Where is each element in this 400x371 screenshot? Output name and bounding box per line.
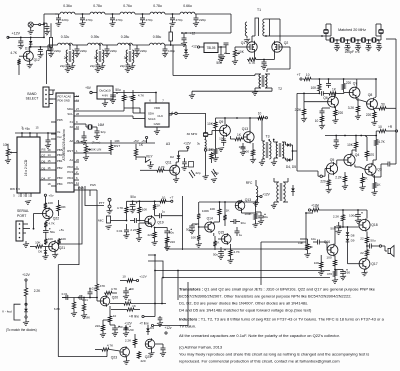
svg-text:GND: GND: [154, 122, 162, 126]
svg-text:47K: 47K: [100, 284, 106, 288]
caps on T line: [158, 317, 163, 319]
transistor Q11: [170, 165, 180, 175]
svg-text:470p: 470p: [176, 18, 183, 22]
resistor 10K Q6: [318, 83, 321, 92]
svg-text:Q8: Q8: [368, 93, 373, 97]
dots T3: [268, 139, 270, 141]
wire q16 collector: [334, 227, 336, 245]
svg-text:0.01: 0.01: [62, 292, 68, 296]
svg-text:220: 220: [95, 324, 100, 328]
svg-text:+5v: +5v: [59, 228, 64, 232]
svg-text:+50: +50: [117, 325, 122, 329]
svg-text:100p: 100p: [239, 145, 246, 149]
svg-text:1K: 1K: [132, 304, 136, 308]
ATMEGA pin PD5 left: [51, 121, 56, 123]
svg-text:+T: +T: [170, 196, 174, 200]
transformer mixer lower: [277, 182, 279, 202]
svg-text:50u: 50u: [115, 88, 121, 92]
svg-text:10K: 10K: [314, 261, 320, 265]
regulator 78L05: [204, 43, 218, 53]
inductor 0.66u row1: [180, 12, 195, 14]
svg-text:D4 and D5 are 1N4148s matched: D4 and D5 are 1N4148s matched for equal …: [179, 308, 312, 313]
svg-text:220: 220: [140, 359, 145, 363]
svg-text:D6: D6: [42, 160, 46, 164]
IC ATMEGA328: [56, 93, 74, 192]
svg-text:10K: 10K: [60, 205, 66, 209]
antenna connector: [28, 22, 33, 27]
svg-text:D4: D4: [150, 326, 154, 330]
svg-text:50u: 50u: [370, 239, 375, 243]
svg-text:100: 100: [244, 150, 249, 154]
svg-text:PB3: PB3: [57, 176, 63, 180]
svg-text:100pF x 5: 100pF x 5: [344, 50, 359, 54]
svg-text:A1: A1: [69, 158, 73, 162]
svg-text:4.7K: 4.7K: [117, 206, 124, 210]
crystal 16M: [86, 126, 88, 128]
svg-text:0.66u: 0.66u: [183, 4, 192, 8]
wire long bus 3: [148, 261, 330, 278]
svg-text:0.32u: 0.32u: [61, 35, 70, 39]
svg-text:10K: 10K: [209, 148, 214, 152]
svg-text:30 MHz: 30 MHz: [187, 132, 198, 136]
rail mic amp: [127, 200, 157, 202]
svg-text:+50: +50: [128, 328, 133, 332]
svg-text:4.7K: 4.7K: [378, 140, 385, 144]
svg-text:11: 11: [76, 181, 79, 185]
ATMEGA pin PB2 left: [51, 169, 56, 171]
svg-text:+5v: +5v: [48, 194, 54, 198]
transistor Q13 mixer: [243, 132, 254, 143]
capacitor 220p row1: [58, 14, 60, 18]
svg-text:(Tune): (Tune): [92, 141, 101, 145]
wire vertical bus C down: [162, 277, 164, 279]
LCD 16x2 block: [17, 137, 40, 193]
LCD pins: [40, 151, 51, 153]
svg-text:D7: D7: [42, 154, 46, 158]
wire vertical PG5 to PA: [90, 189, 97, 191]
wire vertical bus right: [305, 213, 307, 249]
transistor Q9: [220, 125, 231, 136]
capacitor 470p row1: [172, 13, 174, 15]
svg-text:12: 12: [76, 94, 80, 98]
cap at sources: [263, 60, 265, 63]
svg-text:10K: 10K: [48, 237, 53, 241]
svg-text:100p: 100p: [168, 49, 175, 53]
svg-text:T3: T3: [266, 135, 270, 139]
svg-text:+12V: +12V: [124, 322, 132, 326]
svg-text:SDA: SDA: [148, 112, 154, 116]
svg-text:3u: 3u: [124, 56, 128, 60]
svg-text:Q2: Q2: [284, 41, 289, 45]
wire vertical at text edge: [177, 271, 179, 301]
transformer 3u row2 trap: [99, 44, 101, 46]
svg-text:0.78u: 0.78u: [93, 4, 102, 8]
svg-text:Matched 20 MHz: Matched 20 MHz: [338, 28, 366, 32]
FET Q2: [272, 42, 282, 52]
svg-text:10: 10: [306, 73, 310, 77]
cap 50u at 78L05: [218, 54, 224, 56]
svg-text:RST: RST: [114, 144, 120, 148]
svg-text:10K: 10K: [347, 143, 354, 147]
transistor Q15: [221, 234, 231, 244]
resistor 10K Q9 lower: [214, 148, 217, 156]
resistor 1K Q3 b: [373, 182, 376, 190]
svg-text:PD2: PD2: [67, 165, 73, 169]
ATMEGA pin PD2: [74, 168, 79, 170]
svg-text:Q5: Q5: [330, 158, 335, 162]
svg-text:D9: D9: [351, 239, 355, 243]
inductor 0.28u row2: [118, 43, 133, 45]
transistor Q3: [365, 164, 376, 175]
svg-text:10: 10: [378, 125, 382, 129]
svg-text:SDA: SDA: [67, 107, 73, 111]
diodes D4 D5: [287, 143, 290, 147]
T1 winding middle hairpin: [255, 18, 259, 36]
svg-text:+12V: +12V: [22, 273, 31, 277]
svg-text:RFC: RFC: [246, 181, 253, 185]
wire big loop left: [57, 265, 59, 357]
cap 100p filter: [347, 39, 349, 41]
wire 0.01 row: [62, 297, 97, 299]
svg-text:D4, D5: D4, D5: [286, 165, 296, 169]
svg-text:2.2K: 2.2K: [335, 176, 342, 180]
wire rail to Q8 collector: [375, 79, 377, 97]
wire atmega PTT: [85, 186, 104, 206]
crystal output elevated: [380, 28, 382, 30]
svg-text:Q23: Q23: [111, 356, 118, 360]
ATMEGA pin SDA: [74, 110, 79, 112]
speaker jack: [382, 245, 385, 247]
svg-text:470: 470: [369, 153, 375, 157]
ground duca: [104, 99, 106, 103]
resistor 220 Q7: [342, 83, 345, 91]
resistor 1K Q13 base: [234, 137, 243, 140]
source resistor 4.7K: [247, 58, 257, 61]
svg-text:D4: D4: [42, 177, 46, 181]
ATMEGA pin A1: [74, 161, 79, 163]
cap Q6 emitter: [320, 110, 325, 112]
svg-text:220p: 220p: [199, 18, 206, 22]
svg-text:22p: 22p: [60, 64, 65, 68]
svg-text:2u: 2u: [64, 56, 68, 60]
svg-text:SERIAL: SERIAL: [17, 209, 29, 213]
resistor 10: [320, 115, 323, 123]
svg-text:+12V: +12V: [262, 193, 270, 197]
transistor Q23: [120, 347, 130, 357]
inductor 0.32u row2: [58, 43, 73, 45]
svg-text:10u: 10u: [311, 237, 316, 241]
svg-text:+R line: +R line: [129, 315, 139, 319]
crystal X5: [370, 39, 372, 41]
cap 32p xtal: [95, 130, 100, 132]
wire relay down to band area: [50, 48, 52, 51]
svg-text:CLK: CLK: [157, 114, 163, 118]
inductor 0.76u row1: [120, 12, 135, 14]
crystal X1: [328, 39, 330, 41]
svg-text:DuCa10: DuCa10: [99, 89, 110, 93]
transistor Q20: [100, 296, 110, 306]
jack MIC: [107, 216, 111, 223]
transistor Q12 PNP: [23, 51, 33, 61]
T1 bottom leads: [251, 36, 253, 42]
svg-text:2.2K: 2.2K: [333, 215, 340, 219]
svg-text:4.7K: 4.7K: [48, 222, 55, 226]
wire row2 output: [173, 44, 186, 46]
svg-text:D1: D1: [25, 47, 29, 51]
resistor 220 Q8: [373, 111, 376, 119]
transistor Q4: [344, 154, 355, 165]
resistor 220 Q5: [327, 179, 330, 187]
ground serial: [25, 241, 27, 244]
wires IF amp2: [336, 160, 338, 165]
resistor 4.7K Q3: [375, 139, 378, 147]
svg-text:22p: 22p: [120, 64, 125, 68]
svg-text:reproduced. For commercial pro: reproduced. For commercial production of…: [179, 359, 340, 364]
svg-text:10K: 10K: [207, 122, 214, 126]
transistor Q14: [205, 222, 215, 232]
resistor 470 Q4: [365, 150, 368, 158]
crystal X4: [360, 39, 362, 41]
svg-text:Q20: Q20: [112, 296, 119, 300]
svg-text:Q22: Q22: [53, 217, 60, 221]
svg-text:Q18: Q18: [371, 223, 378, 227]
svg-text:470p: 470p: [116, 18, 123, 22]
transformer 3u row2 trap: [129, 44, 131, 46]
rail modulator: [199, 201, 258, 203]
trimmer near q11: [189, 162, 194, 168]
term Q5 base: [320, 175, 322, 177]
crystal input elevated: [325, 28, 327, 30]
resistor 10K Q9: [214, 121, 217, 129]
svg-text:Vcc: Vcc: [57, 135, 62, 139]
bypass cap on 12V: [20, 37, 22, 41]
svg-text:Inductors : T1, T2, T3 are 8 t: Inductors : T1, T2, T3 are 8 trifilar tu…: [179, 317, 385, 322]
svg-text:Q19: Q19: [157, 221, 164, 225]
svg-text:220p: 220p: [62, 18, 69, 22]
svg-text:470p: 470p: [146, 18, 153, 22]
rail IF amp2: [325, 135, 376, 137]
svg-text:SELECT: SELECT: [26, 97, 39, 101]
wire filter out down: [386, 38, 396, 40]
svg-text:10: 10: [258, 112, 262, 116]
transformer T3 secondary: [276, 142, 278, 158]
svg-text:X2: X2: [69, 125, 73, 129]
svg-text:VDD: VDD: [154, 106, 161, 110]
cap base line: [321, 91, 323, 96]
svg-text:T1: T1: [257, 8, 261, 12]
wire corner mod: [261, 241, 306, 243]
svg-text:RST: RST: [67, 149, 73, 153]
svg-text:Q12: Q12: [34, 58, 40, 62]
IC Si570: [145, 103, 169, 127]
wire between gates: [235, 46, 247, 48]
svg-text:11: 11: [76, 99, 79, 103]
ATMEGA pin PC3: [74, 173, 79, 175]
svg-text:+T line: +T line: [139, 322, 149, 326]
svg-text:2.2K: 2.2K: [295, 108, 302, 112]
ATMEGA pin Vcc left: [51, 138, 56, 140]
wire A2 to key: [79, 142, 155, 144]
connector BAND SELECT: [43, 87, 49, 107]
cap q24: [161, 347, 166, 349]
svg-text:PORT: PORT: [17, 214, 26, 218]
svg-text:22: 22: [360, 251, 364, 255]
svg-text:16M: 16M: [98, 123, 105, 127]
svg-text:+12V: +12V: [12, 32, 21, 36]
svg-text:PC3: PC3: [67, 170, 73, 174]
svg-text:RW 6 6: RW 6 6: [10, 187, 20, 191]
svg-text:0.39u: 0.39u: [91, 35, 100, 39]
svg-text:SCLK: SCLK: [148, 117, 156, 121]
wire Q6 collector: [334, 93, 336, 96]
svg-text:TV balun.: TV balun.: [179, 324, 196, 329]
svg-text:1u: 1u: [239, 233, 243, 237]
svg-text:A2: A2: [69, 139, 73, 143]
ATMEGA pin RST: [74, 152, 79, 154]
svg-text:220: 220: [320, 180, 326, 184]
svg-text:(c) Ashhar Farhan, 2013: (c) Ashhar Farhan, 2013: [179, 345, 223, 350]
capacitor 220p row1: [195, 14, 197, 18]
svg-text:BC557/2N3906/2N2907. Other tra: BC557/2N3906/2N2907. Other transistors a…: [179, 294, 352, 299]
svg-text:15: 15: [47, 159, 51, 163]
label +5v q22: [44, 194, 46, 196]
svg-text:100: 100: [326, 256, 331, 260]
svg-text:10K: 10K: [48, 201, 54, 205]
svg-text:100u: 100u: [349, 214, 356, 218]
svg-text:4.7K: 4.7K: [10, 51, 17, 55]
coil under crystal: [205, 140, 207, 149]
svg-text:3u: 3u: [94, 56, 98, 60]
svg-text:Q15: Q15: [218, 231, 224, 235]
inductor 0.39u row2: [88, 43, 103, 45]
svg-text:1u: 1u: [162, 210, 166, 214]
ground bfo: [205, 160, 207, 176]
wire Q3 out: [372, 175, 374, 177]
svg-text:16 x 2 LCD: 16 x 2 LCD: [24, 159, 28, 176]
svg-text:220: 220: [170, 240, 175, 244]
inductor 0.36u row1: [60, 12, 75, 14]
svg-text:+5V: +5V: [133, 139, 140, 143]
relay RFC rect 2: [169, 32, 172, 41]
wire atmega pins down a: [58, 186, 79, 265]
svg-text:10K: 10K: [61, 237, 66, 241]
ATMEGA pin Vs left: [51, 133, 56, 135]
wire PD7 to band select: [53, 89, 55, 91]
wires q14 q15: [213, 233, 215, 236]
svg-text:3.2K: 3.2K: [348, 106, 355, 110]
svg-text:3u: 3u: [197, 142, 201, 146]
svg-text:+12V: +12V: [183, 142, 191, 146]
svg-text:2.2K: 2.2K: [130, 228, 136, 232]
svg-text:+50: +50: [128, 287, 134, 291]
svg-text:4.7K: 4.7K: [249, 61, 256, 65]
svg-text:PD5: PD5: [57, 118, 63, 122]
svg-text:470: 470: [327, 272, 332, 276]
diode at row2 out: [185, 45, 187, 49]
svg-text:14: 14: [47, 153, 51, 157]
cap near q11: [182, 161, 187, 163]
cap 100p filter: [336, 39, 338, 41]
svg-text:D5: D5: [42, 167, 46, 171]
svg-text:100p: 100p: [219, 137, 226, 141]
svg-text:50u: 50u: [130, 195, 136, 199]
svg-text:22p: 22p: [90, 64, 95, 68]
svg-text:10K: 10K: [311, 86, 318, 90]
ATMEGA pin SCL: [74, 115, 79, 117]
svg-text:A3: A3: [166, 142, 170, 146]
svg-text:6.8K: 6.8K: [54, 307, 60, 311]
capacitor 220p row2: [136, 45, 138, 49]
rail Q9 Q13: [217, 117, 257, 119]
wire Q7 emitter to Q8: [356, 99, 358, 101]
svg-text:V - fwd: V - fwd: [2, 310, 12, 314]
wire antenna node: [41, 24, 44, 26]
svg-text:0.78u: 0.78u: [153, 4, 162, 8]
connector serial: [16, 221, 23, 241]
svg-text:0.36u: 0.36u: [63, 4, 72, 8]
svg-text:10K: 10K: [210, 207, 216, 211]
svg-text:X1: X1: [69, 120, 73, 124]
wire q18 base: [339, 226, 359, 228]
transistor Q6: [328, 96, 339, 107]
cap 100p filter: [368, 39, 370, 41]
svg-text:Q4: Q4: [355, 153, 360, 157]
inductor 0.55u row2: [150, 43, 165, 45]
svg-text:Q9: Q9: [219, 120, 224, 124]
pot 10K osc: [233, 49, 236, 58]
svg-text:Transistors : Q1 and Q2 are sm: Transistors : Q1 and Q2 are small signal…: [179, 287, 376, 292]
svg-text:Vs: Vs: [57, 130, 61, 134]
crystal X3: [349, 39, 351, 41]
transistor Q13 mod: [235, 201, 245, 211]
wire long bus 1: [166, 248, 306, 250]
transistor Q24: [145, 339, 155, 349]
svg-text:D2: D2: [170, 155, 174, 159]
svg-text:PB4: PB4: [57, 182, 63, 186]
svg-text:220p: 220p: [110, 49, 117, 53]
wire LPF row1 rail: [55, 13, 60, 15]
svg-text:4-9V: 4-9V: [102, 94, 108, 98]
cap TR node: [183, 33, 185, 38]
capacitor 470p row1: [82, 13, 84, 15]
svg-text:Q11: Q11: [165, 161, 171, 165]
resistor 1K Q3 em: [361, 176, 364, 184]
svg-text:470p: 470p: [86, 18, 93, 22]
svg-text:10K: 10K: [114, 139, 120, 143]
svg-text:10: 10: [315, 119, 319, 123]
svg-text:Q21: Q21: [59, 246, 66, 250]
svg-text:PD5: PD5: [67, 181, 73, 185]
svg-text:+5V: +5V: [85, 86, 92, 90]
wire q14 base: [199, 226, 205, 228]
ATMEGA pin PD4: [74, 179, 79, 181]
svg-text:26: 26: [76, 158, 80, 162]
wire SDA SCL to atmega: [123, 108, 125, 111]
wire mixer out right: [293, 150, 298, 152]
T1 winding right coil: [263, 19, 265, 36]
ATMEGA pin PB4 left: [51, 185, 56, 187]
capacitor 470p row1: [112, 13, 114, 15]
svg-text:220: 220: [346, 81, 352, 85]
resistor 220 Q6: [334, 109, 337, 117]
cap 100p filter: [357, 39, 359, 41]
svg-text:50u: 50u: [50, 230, 55, 234]
wire vertical bus B down: [154, 270, 156, 272]
T1 winding left coil: [245, 22, 247, 36]
svg-text:50u: 50u: [216, 61, 222, 65]
resistor 2.2K Q6: [302, 108, 305, 116]
svg-text:10K: 10K: [142, 208, 148, 212]
